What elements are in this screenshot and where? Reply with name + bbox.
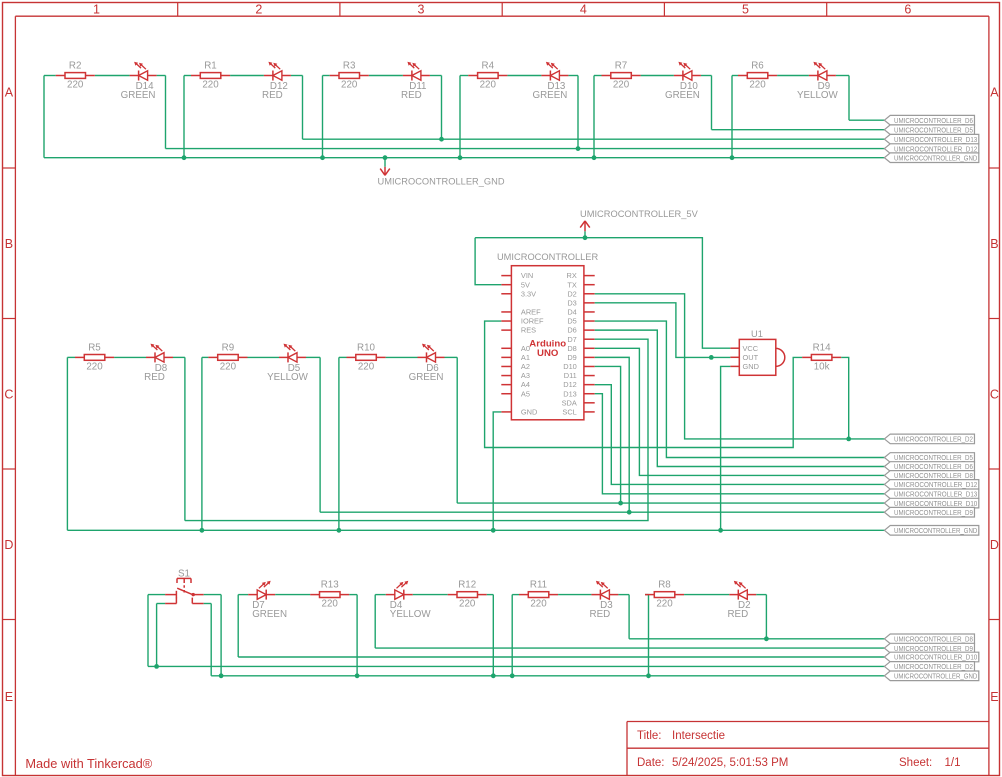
svg-text:R1: R1 — [204, 61, 217, 72]
svg-text:UMICROCONTROLLER_D12: UMICROCONTROLLER_D12 — [894, 144, 977, 153]
svg-text:RED: RED — [401, 90, 422, 101]
svg-text:D2: D2 — [567, 289, 576, 298]
svg-text:5/24/2025, 5:01:53 PM: 5/24/2025, 5:01:53 PM — [672, 757, 788, 769]
svg-text:220: 220 — [358, 361, 375, 372]
svg-text:D6: D6 — [567, 326, 576, 335]
svg-text:UMICROCONTROLLER: UMICROCONTROLLER — [497, 252, 599, 262]
svg-text:UMICROCONTROLLER_D5: UMICROCONTROLLER_D5 — [894, 125, 973, 134]
svg-text:SDA: SDA — [562, 398, 577, 407]
svg-text:B: B — [990, 237, 998, 251]
svg-text:YELLOW: YELLOW — [267, 372, 309, 383]
svg-text:UMICROCONTROLLER_GND: UMICROCONTROLLER_GND — [894, 153, 978, 162]
svg-text:220: 220 — [86, 361, 103, 372]
svg-text:Sheet:: Sheet: — [899, 757, 932, 769]
svg-text:UMICROCONTROLLER_D12: UMICROCONTROLLER_D12 — [894, 480, 977, 489]
svg-text:GREEN: GREEN — [121, 90, 156, 101]
svg-text:R10: R10 — [357, 342, 376, 353]
svg-text:UMICROCONTROLLER_D2: UMICROCONTROLLER_D2 — [894, 662, 973, 671]
svg-text:R2: R2 — [69, 61, 82, 72]
svg-text:GND: GND — [521, 408, 537, 417]
svg-text:UMICROCONTROLLER_D6: UMICROCONTROLLER_D6 — [894, 116, 973, 125]
svg-text:220: 220 — [656, 599, 673, 610]
svg-text:C: C — [4, 387, 13, 401]
svg-text:220: 220 — [613, 79, 630, 90]
svg-text:RED: RED — [144, 372, 165, 383]
svg-text:UMICROCONTROLLER_D9: UMICROCONTROLLER_D9 — [894, 644, 973, 653]
svg-text:A1: A1 — [521, 353, 530, 362]
svg-text:3: 3 — [418, 3, 425, 17]
svg-text:1/1: 1/1 — [945, 757, 961, 769]
svg-text:Intersectie: Intersectie — [672, 730, 725, 742]
svg-text:OUT: OUT — [743, 353, 759, 362]
svg-text:D3: D3 — [567, 298, 576, 307]
svg-text:5V: 5V — [521, 280, 530, 289]
svg-text:UMICROCONTROLLER_D10: UMICROCONTROLLER_D10 — [894, 499, 977, 508]
svg-text:RX: RX — [567, 271, 577, 280]
svg-text:GND: GND — [743, 362, 759, 371]
svg-text:GREEN: GREEN — [532, 90, 567, 101]
svg-text:A3: A3 — [521, 371, 530, 380]
svg-text:D: D — [990, 538, 999, 552]
svg-text:D11: D11 — [564, 371, 577, 380]
svg-text:E: E — [5, 690, 13, 704]
svg-text:220: 220 — [202, 79, 219, 90]
svg-text:C: C — [990, 387, 999, 401]
svg-text:UMICROCONTROLLER_D8: UMICROCONTROLLER_D8 — [894, 471, 973, 480]
svg-text:UMICROCONTROLLER_D9: UMICROCONTROLLER_D9 — [894, 508, 973, 517]
svg-text:UMICROCONTROLLER_GND: UMICROCONTROLLER_GND — [894, 672, 978, 681]
svg-text:220: 220 — [749, 79, 766, 90]
svg-text:RED: RED — [590, 609, 611, 620]
svg-text:220: 220 — [67, 79, 84, 90]
svg-text:SCL: SCL — [562, 408, 576, 417]
svg-text:A5: A5 — [521, 389, 530, 398]
svg-text:D: D — [4, 538, 13, 552]
svg-text:3.3V: 3.3V — [521, 289, 536, 298]
svg-text:U1: U1 — [751, 329, 763, 339]
svg-text:A2: A2 — [521, 362, 530, 371]
svg-text:D12: D12 — [563, 380, 577, 389]
svg-text:UMICROCONTROLLER_GND: UMICROCONTROLLER_GND — [378, 177, 505, 187]
svg-text:R4: R4 — [482, 61, 495, 72]
svg-text:UMICROCONTROLLER_D5: UMICROCONTROLLER_D5 — [894, 453, 973, 462]
svg-text:GREEN: GREEN — [665, 90, 700, 101]
svg-text:RED: RED — [262, 90, 283, 101]
svg-text:YELLOW: YELLOW — [390, 609, 432, 620]
svg-text:Date:: Date: — [637, 757, 665, 769]
svg-text:D10: D10 — [563, 362, 577, 371]
svg-text:TX: TX — [567, 280, 577, 289]
svg-text:2: 2 — [255, 3, 262, 17]
svg-text:220: 220 — [341, 79, 358, 90]
svg-text:UMICROCONTROLLER_D10: UMICROCONTROLLER_D10 — [894, 653, 977, 662]
svg-text:UMICROCONTROLLER_D13: UMICROCONTROLLER_D13 — [894, 490, 977, 499]
svg-text:B: B — [5, 237, 13, 251]
svg-text:R13: R13 — [321, 580, 340, 591]
svg-text:220: 220 — [480, 79, 497, 90]
svg-text:R5: R5 — [88, 342, 101, 353]
svg-text:UMICROCONTROLLER_D6: UMICROCONTROLLER_D6 — [894, 462, 973, 471]
svg-text:D7: D7 — [567, 335, 576, 344]
svg-text:1: 1 — [93, 3, 100, 17]
svg-text:R3: R3 — [343, 61, 356, 72]
svg-text:R9: R9 — [222, 342, 235, 353]
svg-text:RES: RES — [521, 326, 536, 335]
svg-text:GREEN: GREEN — [409, 372, 444, 383]
svg-text:D5: D5 — [567, 317, 576, 326]
svg-text:UMICROCONTROLLER_5V: UMICROCONTROLLER_5V — [580, 209, 699, 219]
svg-text:D8: D8 — [567, 344, 576, 353]
svg-text:220: 220 — [459, 599, 476, 610]
svg-text:220: 220 — [322, 599, 339, 610]
svg-text:UNO: UNO — [537, 348, 559, 359]
svg-text:R14: R14 — [813, 342, 832, 353]
svg-text:D4: D4 — [567, 308, 576, 317]
svg-text:YELLOW: YELLOW — [797, 90, 839, 101]
svg-text:R11: R11 — [530, 580, 547, 591]
svg-text:A4: A4 — [521, 380, 530, 389]
svg-text:UMICROCONTROLLER_GND: UMICROCONTROLLER_GND — [894, 526, 978, 535]
svg-text:220: 220 — [220, 361, 237, 372]
svg-text:6: 6 — [904, 3, 911, 17]
svg-text:D9: D9 — [567, 353, 576, 362]
svg-text:Title:: Title: — [637, 730, 662, 742]
svg-text:R6: R6 — [751, 61, 764, 72]
svg-text:IOREF: IOREF — [521, 317, 544, 326]
svg-text:AREF: AREF — [521, 308, 541, 317]
svg-text:4: 4 — [580, 3, 587, 17]
svg-text:5: 5 — [742, 3, 749, 17]
svg-text:R12: R12 — [458, 580, 476, 591]
svg-text:UMICROCONTROLLER_D8: UMICROCONTROLLER_D8 — [894, 635, 973, 644]
svg-text:R7: R7 — [615, 61, 628, 72]
svg-text:E: E — [990, 690, 998, 704]
svg-text:UMICROCONTROLLER_D2: UMICROCONTROLLER_D2 — [894, 435, 973, 444]
svg-text:Made with Tinkercad®: Made with Tinkercad® — [25, 756, 152, 771]
svg-text:GREEN: GREEN — [252, 609, 287, 620]
svg-text:R8: R8 — [658, 580, 671, 591]
svg-text:VCC: VCC — [743, 344, 759, 353]
svg-text:RED: RED — [727, 609, 748, 620]
svg-text:A: A — [990, 86, 999, 100]
svg-text:220: 220 — [530, 599, 547, 610]
svg-text:UMICROCONTROLLER_D13: UMICROCONTROLLER_D13 — [894, 135, 977, 144]
svg-text:VIN: VIN — [521, 271, 533, 280]
svg-text:10k: 10k — [814, 361, 830, 372]
svg-text:A: A — [5, 86, 14, 100]
svg-text:D13: D13 — [563, 389, 577, 398]
